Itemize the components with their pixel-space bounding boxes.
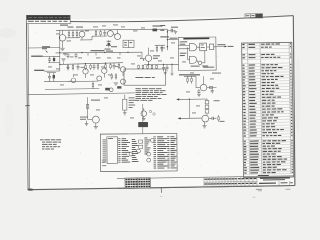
bus wire B <box>60 63 123 65</box>
label inside module <box>135 77 143 78</box>
resistor R23 <box>92 81 94 83</box>
capacitor C14 <box>117 86 121 88</box>
transistor Q4 <box>115 34 121 40</box>
resistor R34 <box>218 115 220 117</box>
label out1 <box>212 72 221 75</box>
IC pins right <box>118 137 120 140</box>
label Q14 <box>80 116 88 119</box>
wire <box>80 39 92 41</box>
resistor R2 <box>68 30 70 33</box>
label clock out <box>218 43 226 46</box>
capacitor C20 <box>198 89 200 91</box>
resistor R24 <box>123 99 127 110</box>
capacitor C1 <box>49 56 51 59</box>
capacitor C94 <box>93 63 95 66</box>
sheet border frame <box>27 16 294 22</box>
buffer U3 <box>210 44 214 50</box>
resistor R21 <box>115 73 117 75</box>
scan speckles (noise) <box>34 23 288 184</box>
transistor Q12 <box>71 78 76 83</box>
transistor Q8 <box>102 68 107 73</box>
amplifier stage 2 <box>176 98 224 128</box>
mid components <box>139 140 143 143</box>
ground <box>142 119 146 121</box>
ground <box>197 94 201 96</box>
resistor R98 <box>97 63 99 65</box>
capacitor C13 <box>105 88 110 91</box>
amplifier stage 1 <box>179 73 221 97</box>
wire <box>87 97 89 119</box>
label Q1 <box>60 25 68 26</box>
resistor R6 <box>100 30 102 32</box>
node SIGNAL IN label <box>31 56 43 57</box>
ground left of connector <box>85 124 89 126</box>
wire to crystal <box>142 104 144 122</box>
IC U10 <box>107 137 118 164</box>
wire input2 arrow <box>180 117 202 119</box>
tick below strip <box>160 187 162 193</box>
wire to clock generator <box>167 39 178 41</box>
transistor Q2 <box>79 31 85 37</box>
inverter bubble <box>198 61 202 65</box>
pin text column 3 <box>144 137 147 140</box>
bottom-left label <box>102 159 107 162</box>
relay K1 <box>123 40 134 47</box>
resistor network on module top <box>138 64 140 67</box>
+12V rail wire <box>56 29 167 30</box>
ground <box>202 126 206 128</box>
wire <box>143 108 145 111</box>
transistor Q6 <box>145 55 151 61</box>
wire feedback <box>187 47 189 59</box>
inspection stamp (top-right) <box>245 14 263 19</box>
IC pins left <box>102 138 106 141</box>
wire <box>142 127 144 134</box>
circled pin numbers <box>147 152 151 156</box>
resistor R105 <box>105 63 107 65</box>
notes text block center <box>136 87 142 90</box>
resistor R31 <box>191 76 193 78</box>
sheet paper <box>26 16 295 190</box>
wire <box>124 95 126 100</box>
wire bus E <box>144 63 178 65</box>
label bottom edge <box>203 67 214 68</box>
edge connector box J1 <box>100 133 177 171</box>
wire <box>43 55 48 57</box>
transistor Q13 <box>141 111 147 117</box>
component value labels scattered <box>56 33 60 36</box>
label Q6 <box>153 54 160 57</box>
capacitor C4 <box>153 29 158 32</box>
transistor Q11 <box>121 79 126 84</box>
drawing number label box (top-left) <box>26 15 70 23</box>
wire input <box>178 44 189 46</box>
wire bus C <box>44 80 98 83</box>
capacitor C114 <box>113 63 115 66</box>
label R33 <box>214 99 220 102</box>
pin text column 2 <box>132 138 136 141</box>
wire <box>206 99 208 101</box>
transistor Q3 <box>107 31 113 37</box>
resistor R25 <box>87 104 89 108</box>
wire <box>47 72 56 74</box>
junction dots <box>59 64 60 65</box>
wire <box>73 74 75 77</box>
resistor R73 <box>72 64 74 66</box>
label under gate <box>191 66 200 67</box>
resistor R90 <box>90 64 92 66</box>
wire stubs off bus A <box>64 53 66 56</box>
handwriting marks <box>256 189 262 190</box>
revision table (dark) <box>125 178 151 189</box>
block title <box>183 38 209 40</box>
capacitor C2 <box>104 30 106 33</box>
wire <box>197 46 200 48</box>
resistor R110 <box>110 63 112 65</box>
label Q3 Q4 <box>106 44 111 47</box>
ground <box>60 48 64 50</box>
resistor R22 <box>53 75 55 78</box>
resistor stack R33 <box>205 101 209 104</box>
wire <box>44 70 60 72</box>
capacitor C3 <box>108 40 110 47</box>
wire emitter <box>148 61 150 64</box>
resistor R1 <box>53 58 55 61</box>
resistor R41 <box>161 45 163 47</box>
capacitor C12 <box>166 64 168 67</box>
wire <box>184 75 196 77</box>
wire bus D <box>45 88 99 91</box>
resistor R5 <box>95 30 97 32</box>
and gate U1 <box>189 44 196 51</box>
capacitor C22 <box>209 117 212 119</box>
wire long lower <box>28 93 135 95</box>
ground <box>123 113 127 115</box>
label out2 <box>220 120 225 123</box>
node TO ALL label <box>34 70 44 71</box>
wire <box>48 55 60 57</box>
input labels <box>180 40 188 43</box>
wire <box>63 62 65 64</box>
registration tick left border <box>25 105 30 107</box>
transistor Q17 <box>109 88 113 92</box>
wire <box>141 52 143 55</box>
transistor Q1 <box>59 35 66 42</box>
title block strip <box>117 175 294 188</box>
capacitor C16 <box>75 53 77 55</box>
label C5 <box>171 26 178 29</box>
wire <box>203 76 205 84</box>
title block cells <box>203 177 205 187</box>
flip-flop U2 <box>200 43 207 51</box>
ground <box>94 127 98 129</box>
wire <box>155 44 165 46</box>
label row <box>67 66 70 69</box>
signal arrow label <box>42 46 50 47</box>
label bus2 <box>106 50 113 53</box>
ground <box>171 73 174 75</box>
ground <box>164 72 167 74</box>
parts list table <box>242 42 294 177</box>
ground <box>61 59 65 61</box>
transistor Q9 <box>120 67 125 72</box>
resistor R4 <box>76 30 78 33</box>
transistor Q14 <box>92 116 99 123</box>
label nodes <box>160 24 165 27</box>
wire <box>85 74 87 78</box>
resistor R20 <box>111 73 113 75</box>
wire input arrow <box>179 98 208 100</box>
ground <box>114 83 118 85</box>
pin text column far right <box>167 135 169 138</box>
resistor R68 <box>67 64 69 66</box>
notes text block left <box>40 139 44 140</box>
resistor R40 <box>156 45 158 47</box>
label C4 <box>153 26 163 27</box>
resistor R119 <box>118 63 120 65</box>
oscillator module box <box>124 69 166 85</box>
capacitor C11 <box>163 64 165 67</box>
wire <box>88 119 93 121</box>
resistor R30 <box>187 76 189 78</box>
wire from border <box>28 47 60 49</box>
wire clock out <box>216 46 226 48</box>
connector dot labels <box>149 110 151 112</box>
bottom-left corner blob <box>27 189 33 191</box>
wire <box>188 99 190 118</box>
pin text column right <box>153 135 156 138</box>
capacitor C21 <box>211 89 213 91</box>
label node <box>91 100 100 101</box>
nor gate U4 <box>190 56 197 63</box>
company name <box>260 177 290 179</box>
transistor Q15 <box>200 84 207 91</box>
wire junction node <box>166 29 168 50</box>
transistor Q7 <box>83 69 88 74</box>
resistor R85 <box>85 64 87 66</box>
transistor Q16 <box>202 115 209 122</box>
crystal Y1 <box>139 122 148 127</box>
capacitor C5 <box>167 29 171 31</box>
parts list footer label <box>258 175 269 177</box>
wire <box>92 35 107 37</box>
clock generator block diagram <box>178 37 216 70</box>
capacitor C78 <box>77 64 79 67</box>
bus wire <box>56 51 143 54</box>
capacitor C15 <box>67 53 69 55</box>
label C3 <box>105 48 111 51</box>
wire <box>171 64 173 73</box>
wire <box>66 37 80 39</box>
wire output <box>207 87 217 89</box>
capacitor C10 <box>49 73 51 77</box>
resistor R3 <box>72 30 74 33</box>
label R2 <box>68 26 74 29</box>
wire <box>59 30 61 71</box>
ground <box>174 32 178 34</box>
transistor Q10 <box>97 76 102 81</box>
resistor R32 <box>209 86 212 88</box>
wire <box>204 122 206 126</box>
label bus <box>91 50 105 51</box>
